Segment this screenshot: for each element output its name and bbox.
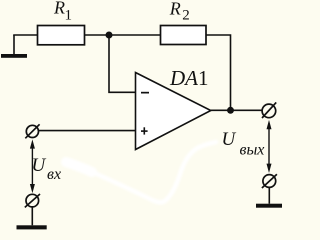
svg-text:U: U	[32, 155, 47, 176]
resistor R1	[38, 26, 85, 45]
resistor R2	[161, 26, 207, 45]
lower output terminal	[262, 174, 277, 188]
svg-text:R: R	[53, 0, 65, 18]
minus sign (inverting input)	[141, 92, 149, 94]
wire feedback down to inverting input	[109, 35, 136, 92]
wire R2 to output column	[206, 35, 231, 110]
ground (bottom left)	[17, 207, 47, 230]
ground (bottom right)	[256, 187, 282, 208]
svg-text:R: R	[169, 0, 181, 18]
wire input terminal to + input	[39, 130, 136, 132]
svg-text:1: 1	[65, 8, 73, 24]
wire ground to R1	[13, 34, 37, 36]
node: junction dot at feedback tap	[106, 32, 113, 39]
ground (top left)	[1, 35, 27, 58]
wire op-amp output to terminal	[211, 109, 262, 111]
output terminal (circle with slash)	[262, 102, 276, 118]
svg-text:U: U	[222, 129, 237, 150]
dimension arrow Uvx (double-headed, vertical)	[30, 139, 35, 193]
op-amp DA1	[136, 73, 211, 150]
svg-text:2: 2	[182, 8, 190, 24]
dimension arrow Uvyx (double-headed, vertical)	[267, 120, 272, 173]
svg-text:вых: вых	[240, 141, 265, 158]
node: output junction dot	[227, 107, 234, 114]
lower input terminal	[25, 194, 40, 207]
svg-text:DA1: DA1	[169, 66, 209, 90]
wire R1 to R2	[85, 34, 161, 36]
input terminal (circle with slash)	[25, 124, 39, 138]
plus sign (non-inverting input)	[141, 127, 148, 134]
svg-text:вх: вх	[47, 166, 61, 183]
